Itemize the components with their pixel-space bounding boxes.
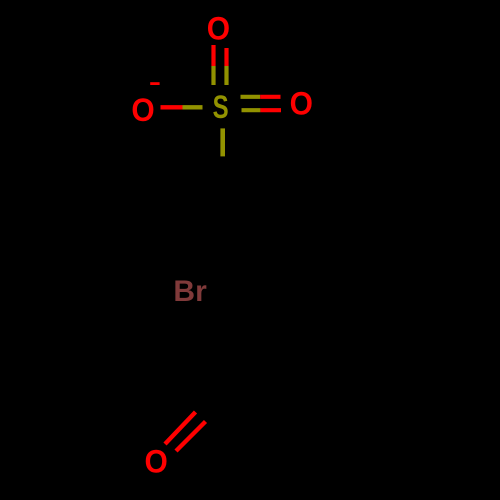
svg-text:S: S <box>213 89 229 125</box>
svg-text:O: O <box>131 92 154 128</box>
svg-text:O: O <box>290 86 313 122</box>
svg-text:Br: Br <box>173 275 207 308</box>
svg-text:O: O <box>145 444 168 480</box>
svg-text:O: O <box>207 10 230 46</box>
